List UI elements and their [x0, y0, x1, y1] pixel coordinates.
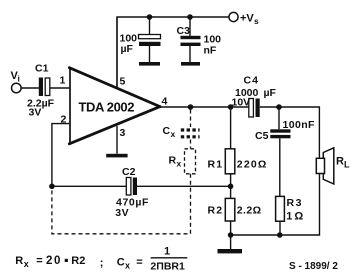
svg-text:3: 3: [120, 127, 126, 139]
svg-text:4: 4: [162, 96, 168, 108]
svg-text:C4: C4: [244, 75, 259, 87]
svg-text:x: x: [24, 259, 29, 269]
svg-text:10V: 10V: [232, 97, 251, 109]
svg-text:1Ω: 1Ω: [286, 211, 305, 223]
svg-text:s: s: [254, 16, 259, 26]
svg-text:1: 1: [60, 75, 66, 87]
svg-text:1: 1: [164, 246, 170, 258]
capacitor 100uF electrolytic: [120, 17, 161, 62]
speaker RL: [316, 148, 350, 184]
wire C2 right: [137, 185, 231, 187]
ground pin 3: [106, 154, 127, 158]
formula Rx = 20 R2: [15, 246, 187, 273]
node on rail at 100uF: [147, 14, 153, 20]
svg-text:x: x: [125, 261, 130, 271]
ground below 100uF: [139, 62, 160, 66]
svg-text:C3: C3: [177, 25, 191, 37]
capacitor C2 electrolytic: [115, 166, 149, 219]
resistor R2: [208, 198, 262, 221]
svg-text:R: R: [15, 255, 23, 267]
wire C4 to speaker top: [260, 107, 320, 158]
svg-text:C1: C1: [35, 63, 49, 75]
svg-text:100nF: 100nF: [283, 119, 316, 131]
svg-text:3V: 3V: [29, 107, 42, 119]
node output A: [188, 104, 194, 110]
ground below R2: [230, 235, 232, 249]
svg-text:C: C: [163, 125, 171, 137]
resistor R1: [208, 149, 268, 174]
svg-text:L: L: [344, 160, 350, 170]
wire R2 bottom: [230, 221, 232, 235]
svg-text:5: 5: [120, 76, 126, 88]
wire input: [21, 87, 39, 89]
svg-text:220Ω: 220Ω: [237, 159, 268, 171]
svg-text:i: i: [18, 74, 20, 84]
wire R1 top: [230, 107, 232, 149]
node below R3: [277, 232, 283, 238]
op-amp U1 TDA 2002: [69, 68, 160, 145]
resistor R3: [276, 196, 306, 222]
capacitor Cx (dashed, optional): [163, 110, 200, 149]
dashed feedback wire: [52, 174, 191, 234]
pin 5 wire: [116, 17, 118, 87]
svg-text:C2: C2: [122, 166, 136, 178]
pin 2 wire: [52, 124, 70, 187]
svg-text:x: x: [171, 129, 176, 139]
svg-text:R2: R2: [71, 255, 85, 267]
svg-text:C5: C5: [255, 130, 269, 142]
node pin2/C2 junction: [49, 184, 55, 190]
resistor Rx (dashed, optional): [169, 149, 196, 174]
capacitor C5: [255, 107, 315, 196]
wire C1 to pin 1: [50, 87, 70, 89]
svg-text:2ΠBR1: 2ΠBR1: [150, 261, 185, 273]
wire output pin 4: [160, 106, 250, 108]
node R1/R2: [228, 184, 234, 190]
svg-text:R1: R1: [208, 159, 224, 171]
wire R1 bottom: [230, 174, 232, 199]
node on rail at C3: [187, 14, 193, 20]
pin 3 wire: [116, 126, 118, 154]
capacitor C4 electrolytic: [232, 75, 277, 118]
svg-text:µF: µF: [121, 43, 134, 55]
svg-text:2.2Ω: 2.2Ω: [237, 205, 262, 217]
node output B: [228, 104, 234, 110]
svg-text:2: 2: [61, 114, 67, 126]
node at C5: [276, 104, 282, 110]
svg-text:R2: R2: [208, 205, 224, 217]
wire supply rail top: [117, 17, 229, 88]
svg-text:R: R: [169, 155, 177, 167]
svg-text:C: C: [117, 257, 125, 269]
svg-text:R3: R3: [287, 197, 303, 209]
svg-text:µF: µF: [264, 87, 277, 99]
capacitor C1 electrolytic: [27, 63, 55, 119]
ground below C3: [181, 62, 200, 66]
svg-text:=: =: [136, 257, 142, 269]
svg-text:3V: 3V: [115, 207, 129, 219]
wire R3 to ground rail: [279, 221, 281, 235]
node below R2: [228, 232, 234, 238]
svg-text:nF: nF: [204, 45, 217, 57]
wire C2 left: [52, 185, 127, 187]
svg-text:x: x: [177, 159, 182, 169]
svg-text:TDA 2002: TDA 2002: [79, 100, 135, 115]
wire ground rail bottom: [231, 174, 320, 236]
svg-text:R: R: [336, 156, 344, 168]
capacitor C3: [177, 17, 222, 62]
svg-text:;: ;: [100, 257, 104, 269]
svg-text:=: =: [36, 255, 42, 267]
terminal +Vs: [229, 12, 238, 21]
svg-text:S - 1899/ 2: S - 1899/ 2: [289, 261, 338, 272]
svg-text:+V: +V: [240, 13, 254, 25]
svg-text:20: 20: [46, 255, 62, 267]
